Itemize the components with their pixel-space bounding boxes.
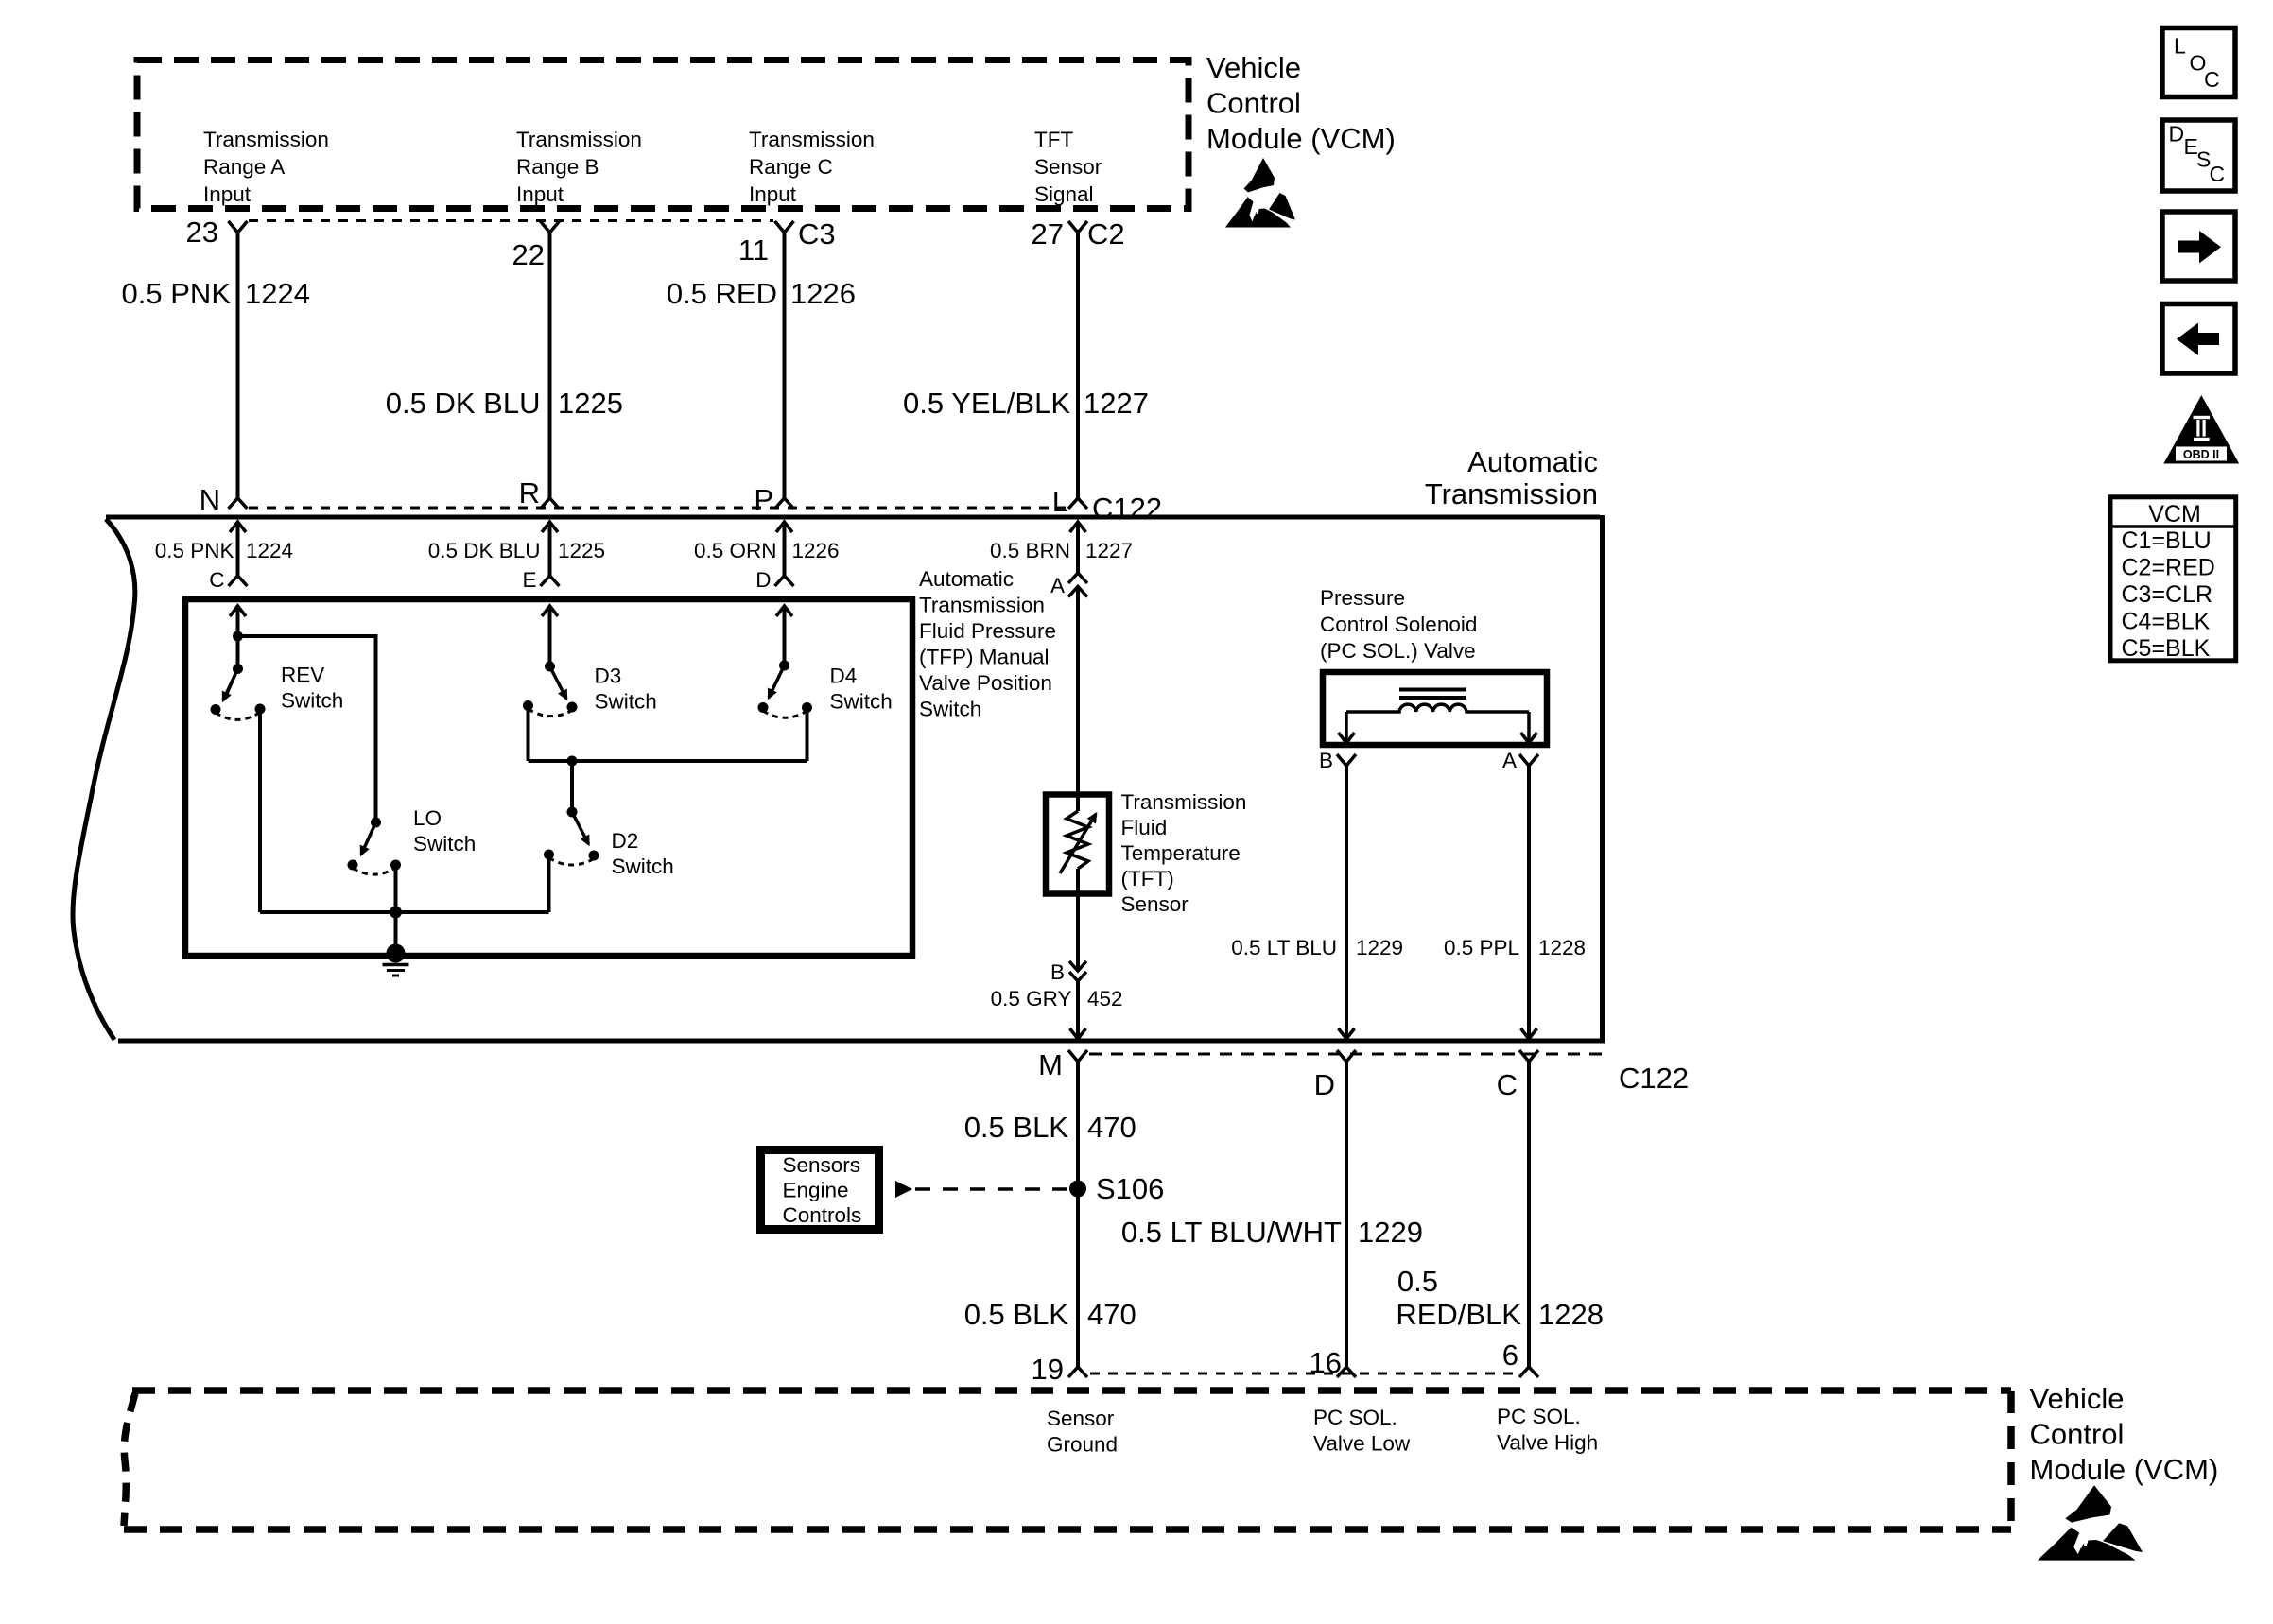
svg-text:OBD II: OBD II xyxy=(2183,448,2219,461)
wire 470 BLK (C122-M to S106) xyxy=(1076,1062,1080,1184)
label: LO Switch xyxy=(413,806,476,855)
solenoid L1 coil xyxy=(1346,704,1529,712)
pin 6 (PC SOL Valve High) xyxy=(1502,1339,1538,1377)
wire 1228 PPL (PC SOL A to C122-C) xyxy=(1521,766,1537,1039)
svg-text:23: 23 xyxy=(186,216,218,249)
svg-text:Sensor: Sensor xyxy=(1034,155,1102,179)
svg-text:A: A xyxy=(1050,574,1065,597)
wire label 0.5 LT BLU 1229 xyxy=(1231,936,1403,959)
switch REV dashed arc xyxy=(216,713,260,720)
wire label 0.5 DK BLU 1225 xyxy=(386,387,623,420)
svg-text:A: A xyxy=(1502,749,1517,772)
svg-text:Input: Input xyxy=(749,182,797,206)
label: Transmission Range A Input xyxy=(203,128,329,206)
splice S106 xyxy=(1069,1181,1086,1198)
title: Automatic Transmission xyxy=(1425,445,1598,510)
svg-text:D3: D3 xyxy=(595,665,622,688)
switch LO arm xyxy=(361,822,376,855)
pin 19 (Sensor Ground) xyxy=(1032,1353,1087,1386)
svg-text:C1=BLU: C1=BLU xyxy=(2122,527,2212,554)
wire 1224 PNK (pin 23 to C122-N) xyxy=(236,233,240,498)
svg-text:(PC SOL.) Valve: (PC SOL.) Valve xyxy=(1320,639,1476,663)
svg-text:E: E xyxy=(522,568,536,592)
svg-text:Fluid Pressure: Fluid Pressure xyxy=(919,619,1056,643)
switch D3 (pivot) xyxy=(545,662,555,672)
svg-text:22: 22 xyxy=(512,238,545,271)
pin 23 (Transmission Range A Input) xyxy=(186,216,248,249)
svg-text:Vehicle: Vehicle xyxy=(2030,1382,2125,1415)
C122 pin C (bottom) xyxy=(1497,1050,1538,1101)
svg-text:1226: 1226 xyxy=(792,539,840,562)
label: S106 xyxy=(1096,1172,1164,1205)
VCM module outline (top, dashed box) xyxy=(137,60,1189,209)
svg-text:Control: Control xyxy=(2030,1418,2125,1451)
connector C122 dashed line xyxy=(249,507,1066,510)
svg-text:Vehicle: Vehicle xyxy=(1206,51,1301,84)
svg-text:Transmission: Transmission xyxy=(749,128,875,151)
label: Transmission Range B Input xyxy=(516,128,642,206)
svg-text:19: 19 xyxy=(1032,1353,1064,1386)
wire into TFP (D) xyxy=(776,606,792,665)
switch D2 contacts xyxy=(544,850,599,861)
svg-text:B: B xyxy=(1319,749,1333,772)
svg-text:Temperature: Temperature xyxy=(1121,841,1241,865)
svg-text:C: C xyxy=(209,568,224,592)
svg-text:1225: 1225 xyxy=(558,539,605,562)
VCM connector color table xyxy=(2110,497,2236,662)
VCM module outline (bottom, dashed) xyxy=(124,1391,2011,1529)
pin B (TFT sensor, double chevron) xyxy=(1050,960,1086,984)
svg-text:0.5: 0.5 xyxy=(1397,1265,1438,1298)
svg-text:(TFP) Manual: (TFP) Manual xyxy=(919,646,1050,669)
svg-text:RED/BLK: RED/BLK xyxy=(1396,1298,1521,1331)
svg-text:P: P xyxy=(754,483,773,516)
svg-text:452: 452 xyxy=(1087,987,1123,1011)
pin C (TFP switch) xyxy=(209,568,247,592)
wire 1227 to TFT sensor xyxy=(1076,587,1080,812)
svg-text:1224: 1224 xyxy=(246,539,293,562)
pin 16 (PC SOL Valve Low) xyxy=(1310,1346,1356,1379)
wire label 0.5 BLK 470 (lower) xyxy=(964,1298,1136,1331)
svg-text:Transmission: Transmission xyxy=(1121,790,1247,814)
svg-text:L: L xyxy=(2174,34,2186,59)
signal arrow into transmission (wire 1226) xyxy=(776,522,792,576)
svg-text:R: R xyxy=(519,476,540,510)
Sensors Engine Controls reference box xyxy=(761,1150,879,1230)
switch REV arm xyxy=(223,669,238,701)
switch LO contacts xyxy=(348,860,402,871)
svg-text:1227: 1227 xyxy=(1085,539,1133,562)
label: PC SOL. Valve High xyxy=(1497,1405,1598,1455)
svg-text:C3: C3 xyxy=(798,217,836,251)
wire 1227 YEL/BLK (pin 27 to C122-L) xyxy=(1076,233,1080,498)
pin 27 (TFT Sensor Signal) xyxy=(1032,217,1087,251)
svg-text:Transmission: Transmission xyxy=(919,594,1045,617)
svg-text:0.5 DK BLU: 0.5 DK BLU xyxy=(386,387,541,420)
label: Automatic Transmission Fluid Pressure (TFP) Manual Valve Position Switch xyxy=(919,567,1056,721)
wire 1225 DK BLU (pin 22 to C122-R) xyxy=(548,233,552,498)
ground symbol xyxy=(383,965,409,976)
switch D2 (pivot) xyxy=(567,807,578,818)
wire 1229 LT BLU (PC SOL B to C122-D) xyxy=(1339,766,1355,1039)
svg-text:Module (VCM): Module (VCM) xyxy=(1206,122,1396,155)
svg-text:Valve High: Valve High xyxy=(1497,1431,1598,1455)
svg-text:B: B xyxy=(1050,960,1065,984)
TFP manual valve position switch box xyxy=(185,599,912,956)
wire ground bus (REV/LO/D2 contacts) xyxy=(260,910,549,914)
svg-text:C4=BLK: C4=BLK xyxy=(2122,609,2211,635)
svg-text:C122: C122 xyxy=(1092,492,1162,525)
svg-text:Ground: Ground xyxy=(1047,1433,1118,1457)
signal arrow into transmission (wire 1224) xyxy=(230,522,246,576)
icon: forward arrow box xyxy=(2162,212,2235,281)
solenoid core lines xyxy=(1399,690,1466,699)
svg-text:0.5 ORN: 0.5 ORN xyxy=(694,539,777,562)
svg-text:D2: D2 xyxy=(612,829,639,853)
switch D4 (pivot) xyxy=(779,661,789,671)
svg-text:0.5 GRY: 0.5 GRY xyxy=(991,987,1072,1011)
C122 pin P xyxy=(754,483,793,516)
svg-text:TFT: TFT xyxy=(1034,128,1073,151)
Automatic Transmission box right edge xyxy=(1600,515,1605,1041)
wire LO contact to ground junction xyxy=(394,865,398,912)
wire D3 contact down xyxy=(527,709,530,761)
wire D3-D4 connecting bus xyxy=(529,759,807,763)
svg-text:0.5 LT BLU/WHT: 0.5 LT BLU/WHT xyxy=(1121,1216,1342,1249)
svg-text:Valve Position: Valve Position xyxy=(919,671,1052,695)
svg-text:Transmission: Transmission xyxy=(203,128,329,151)
label: D2 Switch xyxy=(612,829,674,878)
C122 pin N xyxy=(200,483,248,516)
svg-text:Switch: Switch xyxy=(919,698,981,721)
ESD sensitivity symbol (top) xyxy=(1225,158,1295,228)
switch D3 contacts xyxy=(523,700,578,713)
svg-text:0.5 LT BLU: 0.5 LT BLU xyxy=(1231,936,1337,959)
connector C122 label (top) xyxy=(1092,492,1162,525)
svg-text:Control: Control xyxy=(1206,87,1301,120)
svg-text:Transmission: Transmission xyxy=(516,128,642,151)
svg-text:M: M xyxy=(1038,1048,1063,1081)
svg-text:27: 27 xyxy=(1032,217,1064,251)
label: PC SOL. Valve Low xyxy=(1313,1406,1411,1456)
svg-text:0.5 BLK: 0.5 BLK xyxy=(964,1111,1069,1144)
switch LO (pivot) xyxy=(371,818,381,828)
node: case ground connection xyxy=(387,944,406,963)
svg-text:Switch: Switch xyxy=(830,690,893,714)
pin A (PC SOL) xyxy=(1502,749,1538,772)
svg-text:Automatic: Automatic xyxy=(1467,445,1598,478)
svg-text:Sensor: Sensor xyxy=(1047,1407,1115,1430)
wire junction to case ground xyxy=(394,912,398,950)
wire label 0.5 PPL 1228 xyxy=(1444,936,1586,959)
svg-text:0.5 DK BLU: 0.5 DK BLU xyxy=(428,539,541,562)
wire TFT sensor to pin B xyxy=(1076,869,1080,971)
wire REV junction to LO switch xyxy=(238,636,376,822)
svg-text:Transmission: Transmission xyxy=(1425,477,1598,510)
svg-text:Switch: Switch xyxy=(612,855,674,878)
pin 11 (Transmission Range C Input) xyxy=(738,221,794,267)
switch REV contacts xyxy=(211,704,266,716)
connector C122 label (bottom) xyxy=(1619,1062,1689,1095)
node: ground bus junction xyxy=(390,907,402,919)
label: D3 Switch xyxy=(595,665,657,714)
switch REV (pivot) xyxy=(233,664,243,674)
svg-text:0.5 PPL: 0.5 PPL xyxy=(1444,936,1519,959)
svg-text:Automatic: Automatic xyxy=(919,567,1014,591)
svg-text:1229: 1229 xyxy=(1356,936,1403,959)
svg-text:1229: 1229 xyxy=(1358,1216,1423,1249)
node: D3/D4 bus junction xyxy=(567,756,578,767)
reference pointer arrow xyxy=(895,1181,912,1198)
svg-text:Input: Input xyxy=(203,182,252,206)
signal arrow into transmission (wire 1225) xyxy=(542,522,558,576)
wire label 0.5 GRY 452 xyxy=(991,987,1123,1011)
svg-text:470: 470 xyxy=(1087,1298,1136,1331)
wire into TFP (C) xyxy=(230,606,246,669)
svg-text:11: 11 xyxy=(738,233,769,267)
svg-text:C: C xyxy=(1497,1068,1518,1101)
C122 pin M xyxy=(1038,1048,1087,1081)
wire into TFP (E) xyxy=(542,606,558,666)
svg-text:Sensors: Sensors xyxy=(783,1153,861,1177)
svg-text:Sensor: Sensor xyxy=(1121,892,1189,916)
svg-text:D: D xyxy=(2169,122,2185,147)
pin A (TFT sensor, double chevron) xyxy=(1050,573,1087,597)
svg-text:Module (VCM): Module (VCM) xyxy=(2030,1453,2219,1486)
icon: DESC box xyxy=(2162,120,2235,191)
wire 1228 RED/BLK (C122-C to pin 6) xyxy=(1527,1062,1531,1367)
signal arrow into transmission (wire 1227) xyxy=(1070,522,1086,573)
svg-text:D4: D4 xyxy=(830,665,858,688)
switch D2 arm xyxy=(572,812,589,844)
wire label 0.5 ORN 1226 (inner) xyxy=(694,539,840,562)
wire REV contact to ground bus xyxy=(258,713,262,912)
switch D4 dashed arc xyxy=(763,711,807,717)
wire label 0.5 DK BLU 1225 (inner) xyxy=(428,539,605,562)
label: Sensor Ground xyxy=(1047,1407,1118,1457)
svg-text:PC SOL.: PC SOL. xyxy=(1313,1406,1397,1429)
svg-text:D: D xyxy=(1314,1068,1335,1101)
C122 pin D (bottom) xyxy=(1314,1050,1356,1101)
svg-text:1226: 1226 xyxy=(790,277,856,310)
svg-text:D: D xyxy=(755,568,771,592)
TFT sensor box xyxy=(1046,795,1109,894)
icon: LOC box xyxy=(2162,28,2235,97)
svg-text:1227: 1227 xyxy=(1084,387,1149,420)
dashed reference line to S106 xyxy=(915,1187,1067,1191)
svg-text:C: C xyxy=(2210,162,2226,186)
svg-text:470: 470 xyxy=(1087,1111,1136,1144)
wire label 0.5 RED/BLK 1228 xyxy=(1396,1265,1604,1331)
svg-text:C122: C122 xyxy=(1619,1062,1689,1095)
svg-text:LO: LO xyxy=(413,806,442,830)
svg-text:0.5 PNK: 0.5 PNK xyxy=(155,539,234,562)
svg-text:Engine: Engine xyxy=(783,1179,849,1202)
connector C2 label xyxy=(1087,217,1125,251)
svg-text:C2: C2 xyxy=(1087,217,1125,251)
Automatic Transmission box torn left edge xyxy=(73,519,135,1040)
connector boundary dashed line (bottom) xyxy=(1090,1373,1518,1375)
switch D3 arm xyxy=(550,666,567,699)
svg-text:1225: 1225 xyxy=(558,387,623,420)
svg-text:Switch: Switch xyxy=(595,690,657,714)
Automatic Transmission box top edge xyxy=(106,515,1600,520)
wire label 0.5 BRN 1227 (inner) xyxy=(990,539,1133,562)
svg-text:VCM: VCM xyxy=(2148,501,2201,527)
svg-text:Range C: Range C xyxy=(749,155,833,179)
icon: OBD II triangle xyxy=(2163,395,2239,464)
svg-text:Switch: Switch xyxy=(281,689,343,713)
wire label 0.5 RED 1226 xyxy=(667,277,856,310)
thermistor arrow xyxy=(1060,814,1096,873)
wire D2 contact to ground bus xyxy=(547,858,551,912)
C122 pin R xyxy=(519,476,560,510)
svg-text:0.5 YEL/BLK: 0.5 YEL/BLK xyxy=(903,387,1070,420)
svg-text:(TFT): (TFT) xyxy=(1121,867,1174,890)
connector C3 label xyxy=(798,217,836,251)
svg-text:Valve Low: Valve Low xyxy=(1313,1432,1411,1456)
svg-text:C5=BLK: C5=BLK xyxy=(2122,635,2211,662)
switch D3 dashed arc xyxy=(529,709,573,717)
wire 1229 LT BLU/WHT (C122-D to pin 16) xyxy=(1345,1062,1348,1367)
svg-text:S106: S106 xyxy=(1096,1172,1164,1205)
svg-text:0.5 RED: 0.5 RED xyxy=(667,277,777,310)
icon: back arrow box xyxy=(2162,304,2235,374)
wire label 0.5 BLK 470 (upper) xyxy=(964,1111,1136,1144)
svg-text:0.5 BRN: 0.5 BRN xyxy=(990,539,1070,562)
switch D4 contacts xyxy=(758,702,813,713)
pin 22 (Transmission Range B Input) xyxy=(512,221,560,271)
Automatic Transmission box bottom edge xyxy=(118,1039,1605,1044)
wire D4 contact down xyxy=(806,709,809,761)
svg-text:N: N xyxy=(200,483,220,516)
label: Transmission Fluid Temperature (TFT) Sensor xyxy=(1121,790,1247,916)
connector C122 dashed line (bottom) xyxy=(1089,1053,1607,1056)
switch D2 dashed arc xyxy=(549,858,595,866)
svg-text:1228: 1228 xyxy=(1538,1298,1604,1331)
node: REV branch junction xyxy=(233,631,243,642)
title: Vehicle Control Module (VCM) top xyxy=(1206,51,1396,155)
label: REV Switch xyxy=(281,664,343,713)
wire 470 BLK (S106 to pin 19) xyxy=(1076,1184,1080,1367)
switch D4 arm xyxy=(769,665,785,698)
svg-text:Range B: Range B xyxy=(516,155,599,179)
label: Sensors Engine Controls xyxy=(783,1153,862,1227)
label: Pressure Control Solenoid (PC SOL.) Valve xyxy=(1320,586,1477,663)
svg-text:PC SOL.: PC SOL. xyxy=(1497,1405,1581,1428)
svg-text:Signal: Signal xyxy=(1034,182,1094,206)
svg-text:L: L xyxy=(1052,485,1068,518)
pin B (PC SOL) xyxy=(1319,749,1356,772)
pin E (TFP switch) xyxy=(522,568,559,592)
title: Vehicle Control Module (VCM) bottom xyxy=(2030,1382,2219,1486)
svg-text:C2=RED: C2=RED xyxy=(2122,555,2215,581)
label: D4 Switch xyxy=(830,665,893,714)
wire 1226 RED (pin 11 to C122-P) xyxy=(783,233,787,498)
label: TFT Sensor Signal xyxy=(1034,128,1102,206)
svg-text:1228: 1228 xyxy=(1538,936,1586,959)
wire label 0.5 PNK 1224 (inner) xyxy=(155,539,293,562)
label: Transmission Range C Input xyxy=(749,128,875,206)
svg-text:Switch: Switch xyxy=(413,832,476,855)
svg-text:Fluid: Fluid xyxy=(1121,816,1168,839)
svg-text:6: 6 xyxy=(1502,1339,1518,1372)
C122 pin L xyxy=(1052,485,1087,518)
svg-text:Pressure: Pressure xyxy=(1320,586,1405,610)
svg-text:0.5 BLK: 0.5 BLK xyxy=(964,1298,1069,1331)
svg-text:Controls: Controls xyxy=(783,1203,862,1227)
svg-text:1224: 1224 xyxy=(245,277,310,310)
wire coil to pin B (internal) xyxy=(1339,712,1355,743)
connector boundary dashed line (C3) xyxy=(249,219,773,222)
wire label 0.5 YEL/BLK 1227 xyxy=(903,387,1149,420)
switch LO dashed arc xyxy=(353,868,396,874)
svg-text:Input: Input xyxy=(516,182,564,206)
ESD sensitivity symbol (bottom) xyxy=(2038,1485,2143,1560)
svg-text:C: C xyxy=(2204,67,2220,92)
pin D (TFP switch) xyxy=(755,568,793,592)
svg-text:0.5 PNK: 0.5 PNK xyxy=(122,277,232,310)
wire coil to pin A (internal) xyxy=(1521,712,1537,743)
svg-text:C3=CLR: C3=CLR xyxy=(2122,581,2213,608)
thermistor TFT zigzag xyxy=(1067,811,1088,869)
wire label 0.5 PNK 1224 xyxy=(122,277,310,310)
wire label 0.5 LT BLU/WHT 1229 xyxy=(1121,1216,1423,1249)
svg-text:REV: REV xyxy=(281,664,324,687)
PC SOL valve box xyxy=(1323,672,1547,745)
wire 452 GRY to case bottom xyxy=(1070,981,1086,1039)
svg-text:Control Solenoid: Control Solenoid xyxy=(1320,613,1477,636)
wire bus junction to D2 switch xyxy=(570,761,574,812)
svg-text:Range A: Range A xyxy=(203,155,285,179)
